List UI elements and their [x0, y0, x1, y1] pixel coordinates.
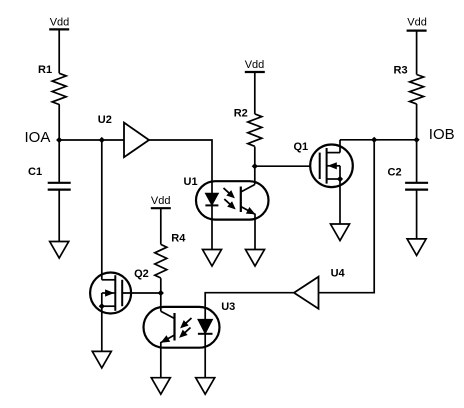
ground under Q2 — [92, 351, 111, 368]
wire node down to U1 collector — [254, 166, 256, 184]
svg-text:U2: U2 — [98, 114, 112, 126]
U1 LED cathode wire to ground — [211, 205, 213, 249]
svg-text:Vdd: Vdd — [151, 195, 171, 207]
svg-text:R1: R1 — [38, 64, 52, 76]
U3 LED cathode wire to ground — [204, 334, 206, 378]
wire R2 to node — [254, 147, 256, 167]
Q1 body stub with arrow — [327, 165, 340, 167]
wire Vdd to R3 — [416, 31, 418, 75]
capacitor C2 — [405, 182, 428, 184]
node U2 input junction — [99, 137, 105, 143]
ground under U3 emitter — [151, 378, 170, 395]
Q2 channel bar — [114, 275, 116, 311]
svg-text:IOA: IOA — [25, 129, 51, 146]
Q1 drain stub — [327, 152, 340, 154]
wire IOB branch down to U4 input — [319, 140, 375, 293]
transistor Q1 body — [310, 145, 353, 188]
Q1 source stub — [327, 178, 340, 180]
svg-text:U4: U4 — [331, 267, 346, 279]
Q1 body-source wire down to ground — [339, 166, 341, 224]
svg-text:C1: C1 — [28, 166, 42, 178]
wire R4 to node — [160, 278, 162, 293]
ground under Q1 — [331, 224, 350, 241]
U1 light arrows — [224, 188, 235, 198]
wire node to Q1 gate — [255, 165, 310, 167]
Q2 drain stub — [102, 279, 116, 281]
resistor R4 — [155, 244, 167, 278]
node U4 branch — [371, 137, 377, 143]
wire Vdd to R2 — [254, 72, 256, 114]
svg-text:Q1: Q1 — [294, 141, 309, 153]
U1 collector lead — [241, 185, 255, 193]
svg-text:IOB: IOB — [429, 126, 455, 143]
ground under U3 LED — [196, 378, 215, 395]
node IOB — [414, 137, 420, 143]
op-amp buffer U2 — [124, 123, 149, 158]
U3 phototransistor — [173, 313, 175, 341]
wire C1 to ground — [58, 190, 60, 242]
node Q2 source tie — [99, 303, 105, 309]
svg-text:U1: U1 — [184, 176, 198, 188]
Q2 body-source wire down to ground — [101, 293, 103, 351]
ground under C2 — [407, 239, 426, 256]
Q1 gate bar — [319, 153, 321, 179]
svg-text:U3: U3 — [221, 301, 235, 313]
wire node down to U3 collector — [160, 293, 162, 311]
U3 emitter lead — [161, 335, 175, 378]
U1 LED anode wire — [211, 181, 213, 193]
capacitor C1 — [48, 182, 71, 184]
U3 collector lead — [161, 311, 175, 318]
ground under C1 — [50, 242, 69, 259]
wire R3 to IOB node — [416, 104, 418, 140]
svg-text:R3: R3 — [394, 65, 408, 77]
resistor R3 — [410, 75, 424, 104]
U3 light arrows — [181, 318, 192, 328]
U1 LED — [205, 193, 218, 205]
wire Vdd to R1 — [58, 29, 60, 73]
wire U2 output to U1 LED — [149, 140, 212, 181]
Q2 source stub — [102, 305, 116, 307]
ground under U1 LED — [203, 250, 222, 267]
wire R1 to IOA node — [58, 104, 60, 140]
wire IOA node to U2 input — [59, 139, 124, 141]
svg-text:Q2: Q2 — [134, 268, 149, 280]
wire C2 to ground — [416, 190, 418, 239]
wire Vdd to R4 — [160, 208, 162, 244]
optocoupler U1 body — [196, 181, 269, 219]
wire IOB down to C2 — [416, 140, 418, 183]
U1 emitter lead — [241, 207, 255, 250]
Q1 channel bar — [326, 148, 328, 184]
node R2 / Q1 gate / U1 collector — [252, 163, 258, 169]
svg-text:R2: R2 — [234, 107, 248, 119]
Q1 drain wire up — [339, 140, 341, 153]
node Q1 source tie — [337, 176, 343, 182]
resistor R2 — [248, 114, 262, 146]
U3 LED anode wire — [204, 307, 206, 320]
op-amp buffer U4 — [294, 277, 319, 309]
U3 LED — [198, 319, 213, 333]
node R4 / Q2 gate / U3 collector — [158, 290, 164, 296]
wire Q1 drain to IOB — [340, 139, 417, 141]
wire IOA branch down to Q2 drain — [101, 140, 103, 280]
optocoupler U3 body — [144, 307, 220, 348]
svg-text:Vdd: Vdd — [245, 59, 265, 71]
transistor Q2 body — [90, 273, 131, 314]
U1 phototransistor — [240, 187, 242, 213]
resistor R1 — [52, 73, 66, 104]
Q2 gate bar — [121, 280, 123, 306]
ground under U1 emitter — [246, 250, 265, 267]
wire IOA node down to C1 — [58, 140, 60, 183]
svg-text:C2: C2 — [388, 166, 402, 178]
svg-text:R4: R4 — [171, 233, 186, 245]
Q2 gate wire — [122, 292, 161, 294]
svg-text:Vdd: Vdd — [50, 17, 70, 29]
wire U4 output to U3 LED — [205, 293, 294, 307]
svg-text:Vdd: Vdd — [407, 17, 427, 29]
Q2 body stub with arrow — [102, 292, 116, 294]
